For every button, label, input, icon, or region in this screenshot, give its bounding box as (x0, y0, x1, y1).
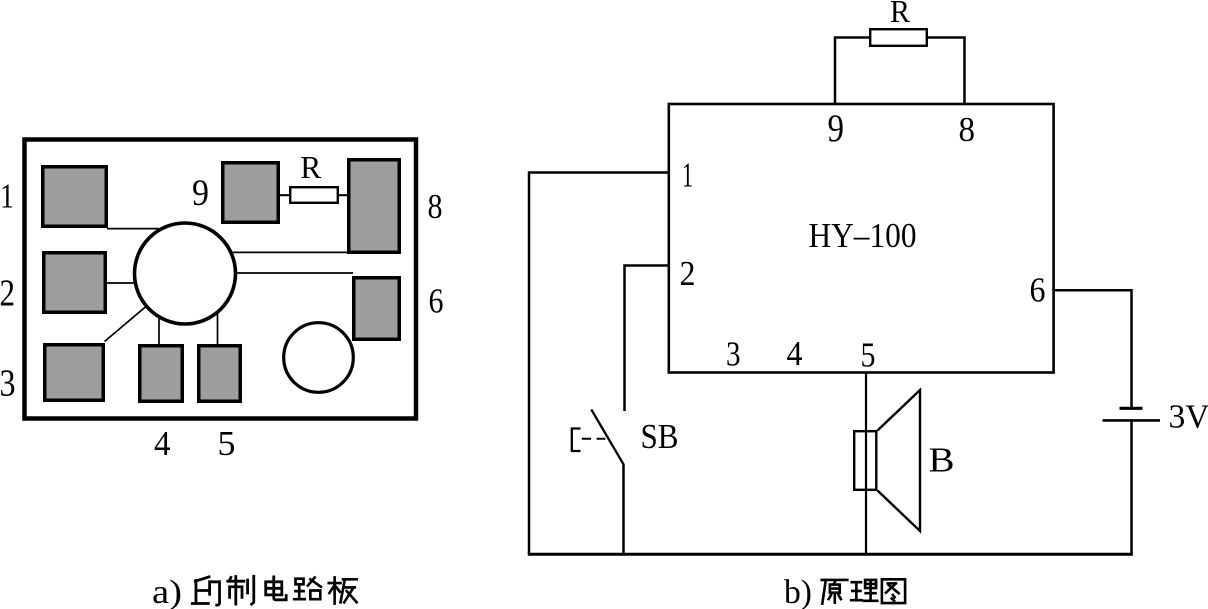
caption char lu (294, 577, 321, 599)
svg-text:a): a) (152, 574, 182, 609)
svg-text:SB: SB (641, 417, 679, 456)
pad 1 (43, 167, 107, 227)
caption char yuan (822, 580, 848, 604)
wire pad4-circle (158, 317, 160, 346)
wire pin6 to battery (1054, 290, 1132, 407)
resistor R (PCB) (280, 187, 349, 203)
svg-text:2: 2 (680, 254, 696, 293)
svg-text:5: 5 (218, 424, 236, 463)
IC blob big circle (135, 223, 236, 324)
wire pin1 to left rail (529, 171, 669, 174)
wire pin2 to switch (625, 266, 669, 412)
caption char li (851, 580, 877, 601)
pad 4 (140, 346, 183, 402)
svg-text:6: 6 (429, 282, 444, 321)
chip U1 HY-100 box (669, 104, 1054, 373)
svg-text:4: 4 (787, 334, 803, 373)
wire pad1-circle (107, 228, 159, 230)
mounting hole small circle (284, 323, 354, 393)
svg-text:1: 1 (682, 156, 693, 195)
svg-text:9: 9 (828, 107, 845, 150)
svg-text:8: 8 (959, 110, 976, 149)
caption char yin (192, 577, 219, 605)
battery BT1 long plate (1103, 419, 1161, 422)
svg-text:HY–100: HY–100 (809, 216, 917, 255)
PCB board outline (25, 140, 417, 419)
pad 8 (349, 160, 400, 253)
battery BT1 short plate (1120, 407, 1143, 410)
caption char dian (266, 577, 286, 600)
wire pad5-circle (217, 313, 219, 346)
speaker B horn (878, 390, 921, 531)
pad 5 (199, 346, 241, 402)
svg-text:B: B (929, 441, 955, 480)
svg-text:5: 5 (861, 336, 876, 375)
pad 3 (45, 345, 104, 401)
wire pad2-circle (106, 282, 136, 284)
svg-text:R: R (300, 149, 322, 185)
wire pad6-circle (235, 272, 353, 274)
switch SB actuator bracket (572, 429, 581, 452)
wire pad3-circle (105, 307, 147, 342)
pad 2 (44, 253, 106, 313)
svg-text:6: 6 (1030, 271, 1046, 310)
wire pin5 to speaker/bottom rail (865, 372, 867, 554)
svg-text:8: 8 (428, 187, 443, 226)
resistor R (schematic) (835, 29, 965, 104)
switch SB dashed link (582, 438, 606, 440)
caption char zhi (228, 576, 254, 604)
svg-text:4: 4 (154, 424, 171, 463)
pad 9 (223, 163, 279, 223)
bottom rail wire (528, 553, 1133, 556)
svg-text:3: 3 (726, 335, 741, 374)
wire battery to bottom rail (1130, 422, 1133, 555)
pad 6 (354, 278, 400, 340)
caption char ban (329, 577, 357, 603)
svg-text:1: 1 (0, 177, 14, 216)
wire pad8-circle (232, 251, 348, 253)
svg-text:9: 9 (192, 173, 209, 214)
speaker B body (854, 431, 876, 490)
svg-text:b): b) (784, 574, 812, 609)
switch SB blade (591, 410, 624, 465)
caption char tu (882, 579, 905, 603)
left rail wire (528, 171, 531, 554)
svg-text:3V: 3V (1169, 399, 1208, 436)
wire switch to bottom rail (622, 464, 625, 554)
svg-text:R: R (890, 0, 911, 29)
svg-text:2: 2 (0, 273, 15, 315)
svg-text:3: 3 (0, 363, 16, 405)
